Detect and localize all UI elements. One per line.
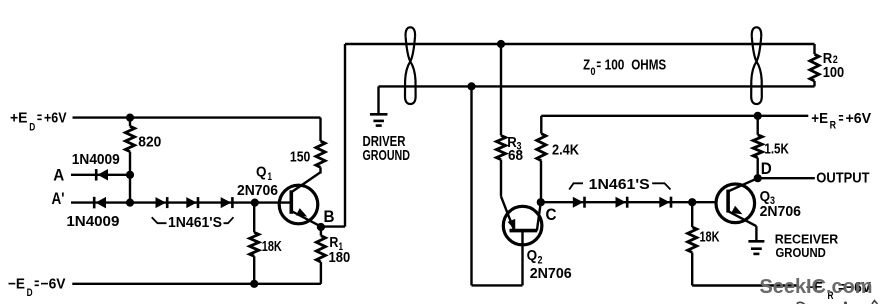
resistor 820 (125, 126, 134, 151)
wire Q2 base run left (472, 284, 523, 286)
wire R1 bottom lead (320, 262, 322, 284)
label 1N461'S left with hooks (152, 214, 234, 231)
svg-text:GROUND: GROUND (776, 245, 826, 260)
svg-text:+E: +E (10, 109, 28, 126)
label RECEIVER GROUND (776, 245, 826, 260)
transistor Q1 collector (291, 172, 320, 192)
svg-text:2N706: 2N706 (760, 203, 801, 220)
label Z0=100 OHMS (583, 57, 666, 78)
wire 2.4K top lead (540, 116, 542, 134)
label Q2 (527, 247, 543, 266)
label R2 100 (823, 64, 844, 81)
transistor Q1 circle (279, 185, 318, 224)
node Q3 base junction (688, 198, 696, 206)
svg-text:D: D (29, 121, 35, 133)
wire R1 top lead (320, 227, 322, 236)
svg-text:+6V: +6V (44, 109, 67, 126)
diode CR3 1N461 (156, 197, 168, 208)
wire +ED rail (73, 116, 321, 118)
wire OUTPUT (758, 177, 815, 179)
label DRIVER GROUND (363, 147, 411, 164)
svg-text:2N706: 2N706 (237, 182, 278, 199)
wire line-1 (top conductor) (345, 43, 815, 45)
wire 18K right bottom lead (691, 252, 693, 285)
wire Q2 base riser (470, 86, 472, 285)
svg-text:1N461'S: 1N461'S (589, 176, 650, 193)
wire 2.4K bottom lead (540, 161, 542, 203)
diode CR6 1N461 (573, 197, 585, 208)
svg-text:18K: 18K (700, 229, 720, 246)
svg-text:C: C (546, 205, 557, 224)
label 1N4009 lower (66, 213, 119, 230)
wire 18K top lead (253, 203, 255, 233)
node A junction (126, 171, 134, 179)
svg-text:68: 68 (508, 147, 523, 164)
svg-text:=: = (34, 275, 39, 292)
node junction 820/rail (126, 114, 134, 122)
wire 820 bottom to A-A' bus (129, 152, 131, 203)
transistor Q2 collector (537, 202, 541, 230)
svg-text:A: A (53, 165, 64, 184)
label R3 68 (508, 147, 523, 164)
wire 1.5K top lead (757, 116, 759, 135)
wire Q3 emitter to ground (755, 226, 757, 241)
wire riser B to line top (344, 44, 346, 227)
node +ER / 1.5K junction (754, 112, 762, 120)
resistor R2 100 (810, 54, 819, 81)
watermark SeekIC.com (760, 275, 873, 298)
wire Q2 base lead down (521, 231, 523, 286)
transistor Q1 base bar (289, 190, 293, 214)
node Q1 base junction (251, 199, 259, 207)
label 1N461'S right with hooks (569, 176, 670, 193)
node line-1 / R3 junction (497, 40, 505, 48)
wire R2 bottom lead (813, 81, 815, 86)
net +ER label (811, 110, 871, 132)
wire B to riser (321, 225, 345, 227)
wire input A' (71, 201, 291, 203)
wire R3 to Q2 emitter (500, 160, 502, 197)
resistor R2 100 top lead (813, 44, 815, 54)
diode CR8 1N461 (659, 197, 671, 208)
svg-text:OUTPUT: OUTPUT (816, 170, 869, 187)
label D (761, 159, 772, 178)
resistor 2.4K (537, 134, 546, 161)
label R3 (507, 134, 521, 153)
label 2.4K (552, 142, 579, 159)
label R2 (823, 50, 838, 67)
label 1.5K (764, 140, 789, 157)
net +ED label (10, 109, 67, 133)
node line-2 / Q2 base junction (467, 82, 475, 90)
diode CR4 1N461 (186, 197, 198, 208)
svg-text:A': A' (52, 189, 65, 208)
svg-text:=: = (597, 57, 602, 74)
label 1N4009 upper (72, 151, 120, 168)
svg-text:1N4009: 1N4009 (72, 151, 120, 168)
svg-text:0: 0 (591, 66, 596, 78)
svg-text:820: 820 (138, 134, 161, 151)
wire 1.5K bottom lead (757, 158, 759, 179)
wire C to Q3 base (541, 201, 716, 203)
svg-text:OHMS: OHMS (631, 57, 666, 74)
node C junction (537, 198, 545, 206)
wire line-2 (return conductor) (379, 85, 815, 87)
svg-text:−6V: −6V (41, 275, 66, 292)
wire 820 top lead (129, 118, 131, 127)
label C (546, 205, 557, 224)
wire +ER rail (541, 115, 808, 117)
label 18K right (700, 229, 720, 246)
wire 150 top lead (319, 118, 321, 141)
transistor Q3 base bar (726, 190, 730, 213)
label OUTPUT (816, 170, 869, 187)
svg-text:Q: Q (256, 164, 267, 181)
wire -ER rail (692, 284, 797, 286)
cropped marks bottom edge (797, 301, 878, 304)
transistor Q2 emitter (501, 196, 514, 230)
svg-text:2N706: 2N706 (530, 265, 572, 282)
wire 18K right top lead (691, 202, 693, 227)
diode CR2 1N4009 (A') (94, 197, 106, 209)
label DRIVER (363, 133, 406, 150)
svg-text:Q: Q (527, 247, 538, 264)
transistor Q3 emitter (728, 211, 756, 226)
svg-text:100: 100 (823, 64, 844, 81)
svg-text:=: = (839, 110, 844, 127)
resistor R3 68 (496, 136, 505, 160)
transistor Q1 emitter (291, 211, 321, 227)
ground driver (370, 114, 388, 125)
transistor Q2 circle (503, 206, 542, 245)
label 820 (138, 134, 161, 151)
svg-text:2.4K: 2.4K (552, 142, 579, 159)
label Q3 (760, 188, 775, 207)
svg-text:18K: 18K (262, 238, 282, 255)
label R1 180 (329, 249, 351, 266)
svg-text:D: D (27, 287, 33, 299)
label RECEIVER (775, 231, 839, 246)
svg-text:−E: −E (8, 275, 25, 292)
transistor Q3 emitter arrow (731, 206, 744, 218)
node B junction (317, 223, 325, 231)
label B (324, 207, 335, 226)
svg-text:D: D (761, 159, 772, 178)
wire R3 top lead (500, 44, 502, 136)
node D junction (754, 174, 762, 182)
svg-text:B: B (324, 207, 335, 226)
net -ER label (under watermark) (806, 279, 871, 302)
ground receiver (748, 241, 764, 254)
svg-text:180: 180 (329, 249, 351, 266)
label A (53, 165, 64, 184)
svg-text:1N461'S: 1N461'S (168, 214, 222, 231)
svg-text:+6V: +6V (846, 110, 872, 127)
wire 18K bottom lead (253, 256, 255, 284)
svg-text:100: 100 (605, 57, 625, 74)
svg-text:GROUND: GROUND (363, 147, 411, 164)
label 150 (290, 148, 310, 165)
transistor Q1 emitter arrow (296, 208, 309, 220)
svg-text:=: = (37, 109, 42, 126)
label A' (52, 189, 65, 208)
resistor 18K left (250, 232, 259, 256)
resistor 150 (316, 141, 325, 167)
wire input A (71, 174, 130, 176)
svg-text:Z: Z (583, 57, 590, 74)
svg-text:1N4009: 1N4009 (66, 213, 119, 230)
svg-text:SeekIC.com: SeekIC.com (760, 275, 873, 298)
transistor Q2 emitter arrow (508, 219, 519, 232)
transistor Q2 base bar (510, 229, 538, 233)
node A' junction (126, 199, 134, 207)
svg-text:+E: +E (811, 110, 828, 127)
resistor 18K right (688, 227, 697, 252)
label 18K left (262, 238, 282, 255)
wire -ED rail (72, 283, 321, 285)
twisted pair symbol left (405, 27, 416, 104)
label Q2 2N706 (530, 265, 572, 282)
wire 150 bottom lead (319, 167, 321, 173)
node -ED rail junction (250, 280, 258, 288)
resistor R1 180 (316, 236, 325, 262)
diode CR7 1N461 (616, 197, 628, 208)
label Q3 2N706 (760, 203, 801, 220)
diode CR1 1N4009 (A) (96, 169, 108, 181)
resistor 1.5K (753, 135, 762, 158)
label R1 (329, 234, 343, 253)
svg-text:1.5K: 1.5K (764, 140, 789, 157)
svg-text:150: 150 (290, 148, 310, 165)
diode CR5 1N461 (221, 197, 233, 208)
wire driver-ground stub (377, 86, 379, 113)
twisted pair symbol right (751, 27, 762, 104)
transistor Q3 collector (728, 178, 758, 191)
transistor Q3 circle (716, 184, 755, 223)
label Q1 2N706 (237, 182, 278, 199)
svg-text:R: R (830, 120, 836, 132)
label Q1 (256, 164, 272, 184)
net -ED label (8, 275, 66, 299)
